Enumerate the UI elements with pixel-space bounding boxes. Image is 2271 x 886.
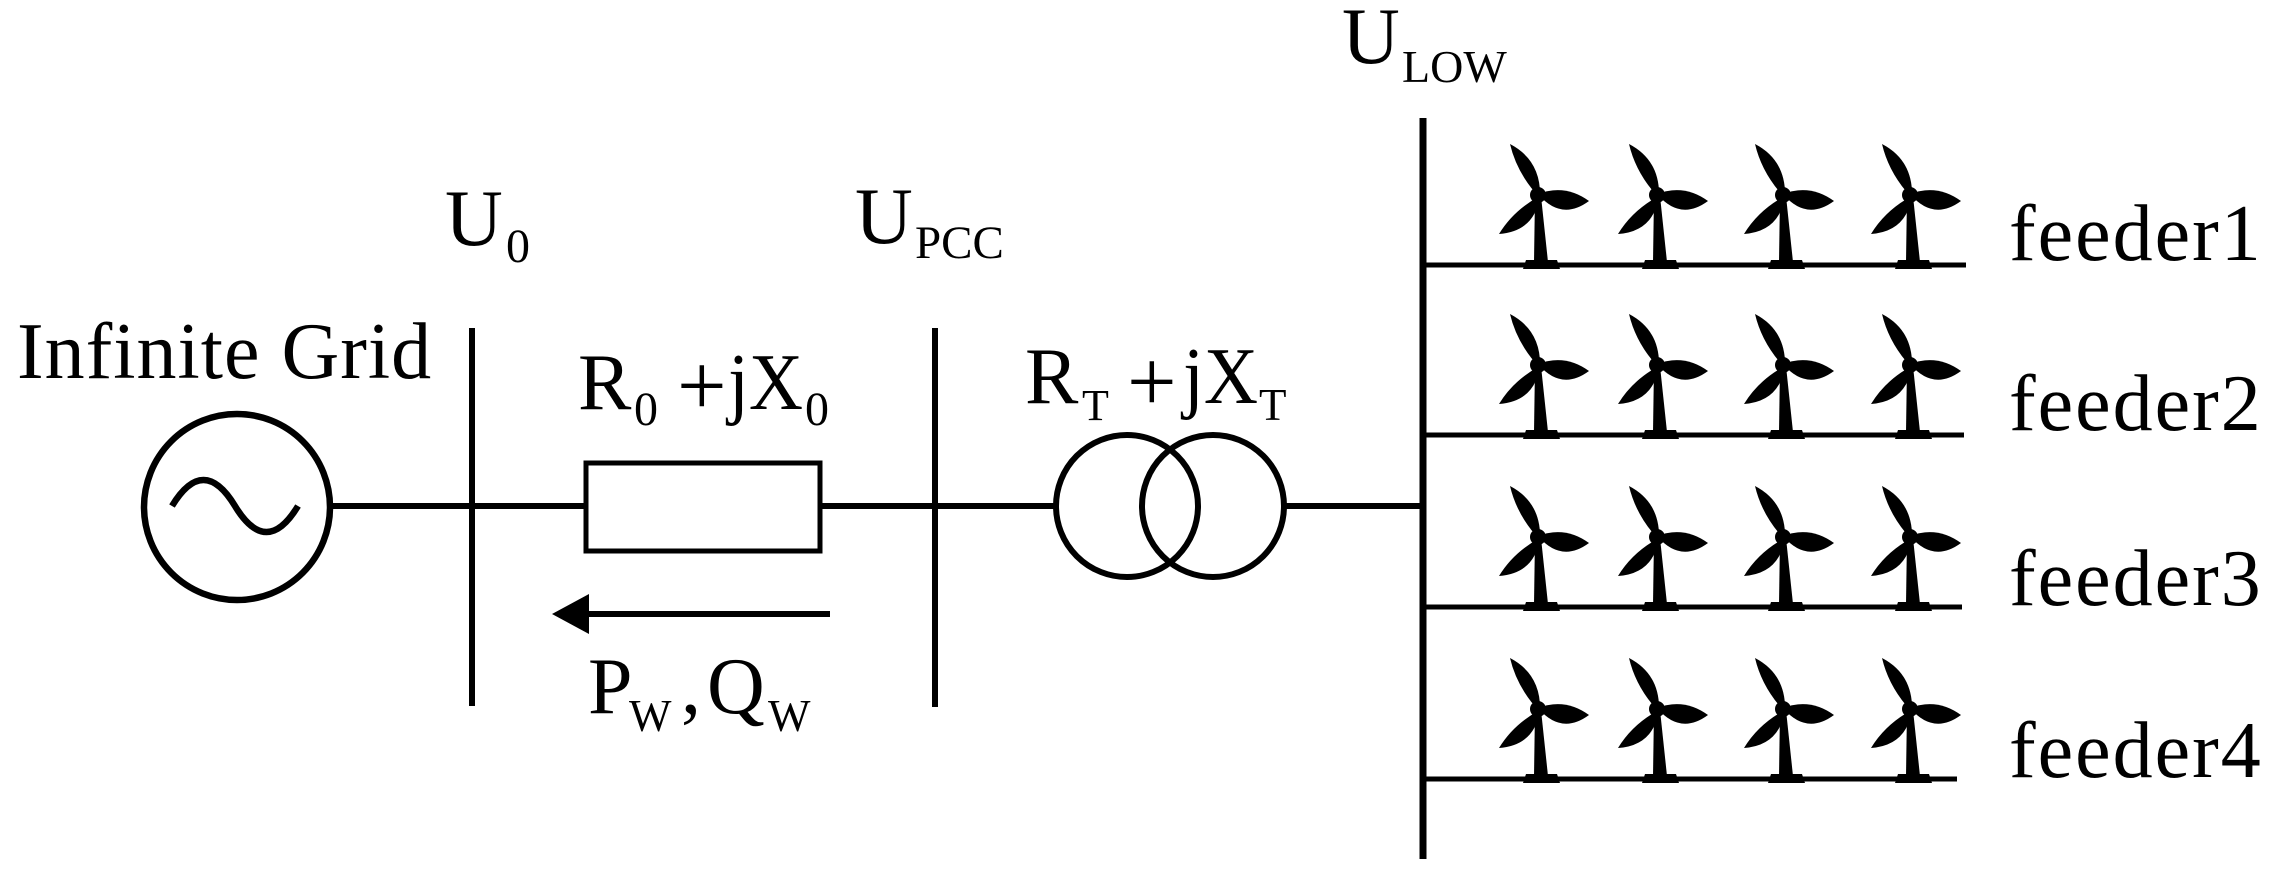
transformer T circle left xyxy=(1056,435,1198,577)
svg-text:+: + xyxy=(1127,334,1177,431)
svg-text:feeder1: feeder1 xyxy=(2009,190,2263,278)
bus UPCC xyxy=(932,328,938,707)
svg-text:,: , xyxy=(681,643,701,731)
svg-text:+: + xyxy=(677,338,727,435)
svg-text:T: T xyxy=(1082,381,1109,430)
wind turbine WT4-4 xyxy=(1871,658,1961,783)
transformer T circle right xyxy=(1142,435,1284,577)
svg-text:W: W xyxy=(768,691,811,741)
feeder4 line xyxy=(1423,777,1957,782)
wind turbine WT3-3 xyxy=(1744,486,1834,611)
svg-text:PCC: PCC xyxy=(915,217,1004,269)
wind turbine WT4-1 xyxy=(1499,658,1589,783)
AC source circle (Infinite Grid generator) xyxy=(144,414,330,600)
bus ULOW xyxy=(1420,118,1427,859)
feeder3 line xyxy=(1423,605,1962,610)
wind turbine WT4-3 xyxy=(1744,658,1834,783)
feeder1 line xyxy=(1423,263,1966,268)
svg-text:0: 0 xyxy=(506,220,530,273)
svg-text:R: R xyxy=(1025,333,1079,421)
wind turbine WT2-2 xyxy=(1618,314,1708,439)
wire: resistor to transformer xyxy=(820,503,1056,509)
svg-text:T: T xyxy=(1259,380,1287,430)
power-flow arrow PW,QW shaft xyxy=(584,611,830,617)
svg-text:jX: jX xyxy=(1180,333,1258,421)
svg-text:LOW: LOW xyxy=(1402,41,1507,92)
svg-text:U: U xyxy=(855,173,913,261)
svg-text:0: 0 xyxy=(634,383,658,436)
wind turbine WT3-4 xyxy=(1871,486,1961,611)
wire: transformer to ULOW bus xyxy=(1284,503,1426,509)
sine wave inside source xyxy=(172,480,298,532)
svg-text:feeder3: feeder3 xyxy=(2009,535,2263,623)
wire: source to resistor xyxy=(330,503,588,509)
wind turbine WT1-3 xyxy=(1744,144,1834,269)
wind turbine WT3-2 xyxy=(1618,486,1708,611)
svg-text:W: W xyxy=(629,691,672,741)
svg-text:0: 0 xyxy=(805,383,829,436)
wind turbine WT2-3 xyxy=(1744,314,1834,439)
resistor R0+jX0 box xyxy=(586,463,820,551)
svg-text:Infinite Grid: Infinite Grid xyxy=(17,308,432,396)
svg-text:U: U xyxy=(1342,0,1400,81)
wind turbine WT1-2 xyxy=(1618,144,1708,269)
svg-text:R: R xyxy=(578,339,632,427)
wind turbine WT3-1 xyxy=(1499,486,1589,611)
wind turbine WT4-2 xyxy=(1618,658,1708,783)
wind turbine WT2-4 xyxy=(1871,314,1961,439)
svg-text:U: U xyxy=(445,175,503,263)
wind turbine WT1-4 xyxy=(1871,144,1961,269)
svg-text:jX: jX xyxy=(725,339,803,427)
wind turbine WT1-1 xyxy=(1499,144,1589,269)
svg-text:P: P xyxy=(588,643,633,731)
feeder2 line xyxy=(1423,433,1964,438)
svg-text:feeder4: feeder4 xyxy=(2009,707,2263,795)
bus U0 xyxy=(469,328,475,706)
power-flow arrow head xyxy=(552,594,589,634)
svg-text:feeder2: feeder2 xyxy=(2009,360,2263,448)
svg-text:Q: Q xyxy=(707,643,765,731)
wind turbine WT2-1 xyxy=(1499,314,1589,439)
